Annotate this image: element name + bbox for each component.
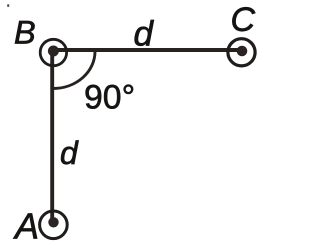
angle arc at B — [53, 52, 95, 89]
svg-text:B: B — [14, 15, 36, 51]
node C (circle + dot) — [228, 39, 255, 66]
svg-text:d: d — [134, 14, 155, 53]
svg-text:90°: 90° — [84, 79, 135, 117]
svg-text:d: d — [60, 135, 79, 171]
svg-text:C: C — [231, 1, 256, 39]
node B (circle + dot) — [40, 39, 66, 65]
svg-text:A: A — [13, 205, 39, 246]
wire BC (horizontal line) — [53, 48, 242, 52]
node A (circle + dot) — [40, 211, 68, 239]
speck artifact top-left — [7, 4, 9, 7]
wire BA (vertical line) — [50, 51, 54, 222]
